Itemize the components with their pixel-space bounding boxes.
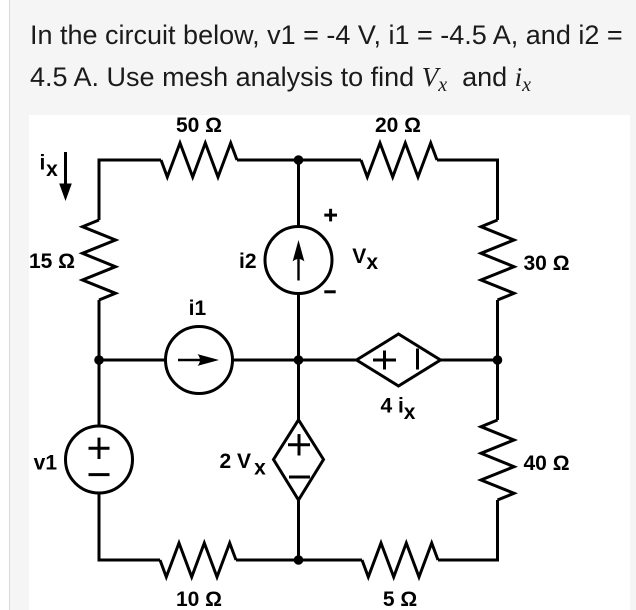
resistor 20Ω zigzag: [361, 143, 437, 177]
wire top-left segment: [99, 159, 161, 162]
current source i1: [166, 327, 233, 394]
wire right-top segment: [496, 159, 499, 221]
node dot middle-center: [294, 355, 304, 365]
resistor 15Ω zigzag: [83, 220, 116, 300]
wire right-middle segment: [496, 300, 499, 420]
plus sign Vx polarity: [324, 209, 337, 222]
arrow ix: [59, 152, 72, 201]
dependent source 4ix diamond: [357, 334, 441, 386]
wire bottom-right segment: [438, 559, 498, 562]
wire left-bottom segment: [98, 300, 101, 562]
svg-text:4 i: 4 i: [381, 394, 404, 417]
node dot middle-right: [493, 355, 503, 365]
svg-text:x: x: [366, 251, 378, 274]
svg-text:v1: v1: [34, 452, 58, 475]
wire middle horizontal: [99, 359, 498, 362]
wire top-right segment: [437, 159, 498, 162]
resistor 50Ω zigzag: [161, 143, 237, 177]
svg-text:15 Ω: 15 Ω: [29, 250, 75, 273]
svg-text:i2: i2: [239, 250, 257, 273]
voltage source v1: [66, 426, 133, 493]
resistor 30Ω zigzag: [481, 220, 514, 300]
node dot top-middle: [294, 155, 304, 165]
svg-text:V: V: [352, 245, 366, 268]
svg-text:2 V: 2 V: [220, 450, 252, 473]
minus sign Vx polarity: [324, 290, 335, 293]
svg-text:30 Ω: 30 Ω: [524, 252, 570, 275]
svg-text:i: i: [40, 152, 46, 175]
svg-text:20 Ω: 20 Ω: [375, 114, 421, 137]
wire right-bottom segment: [496, 500, 499, 562]
resistor 40Ω zigzag: [481, 420, 514, 500]
svg-text:x: x: [404, 401, 416, 424]
dependent source 2Vx diamond: [274, 420, 324, 500]
svg-text:i1: i1: [189, 297, 207, 320]
svg-text:5 Ω: 5 Ω: [383, 588, 417, 610]
wire bottom-middle segment: [236, 559, 362, 562]
resistor 10Ω zigzag: [160, 543, 236, 577]
svg-text:x: x: [254, 457, 266, 480]
wire top-middle segment: [237, 159, 361, 162]
question text: [30, 14, 630, 101]
resistor 5Ω zigzag: [362, 543, 438, 577]
node dot middle-left: [94, 355, 104, 365]
node dot bottom-middle: [294, 555, 304, 565]
svg-text:40 Ω: 40 Ω: [524, 452, 570, 475]
svg-text:10 Ω: 10 Ω: [176, 588, 222, 610]
svg-text:x: x: [46, 158, 58, 181]
wire left-top segment: [98, 159, 101, 221]
svg-text:50 Ω: 50 Ω: [176, 114, 222, 137]
wire middle vertical: [297, 160, 300, 560]
current source i2: [265, 227, 332, 294]
wire bottom-left segment: [99, 559, 160, 562]
